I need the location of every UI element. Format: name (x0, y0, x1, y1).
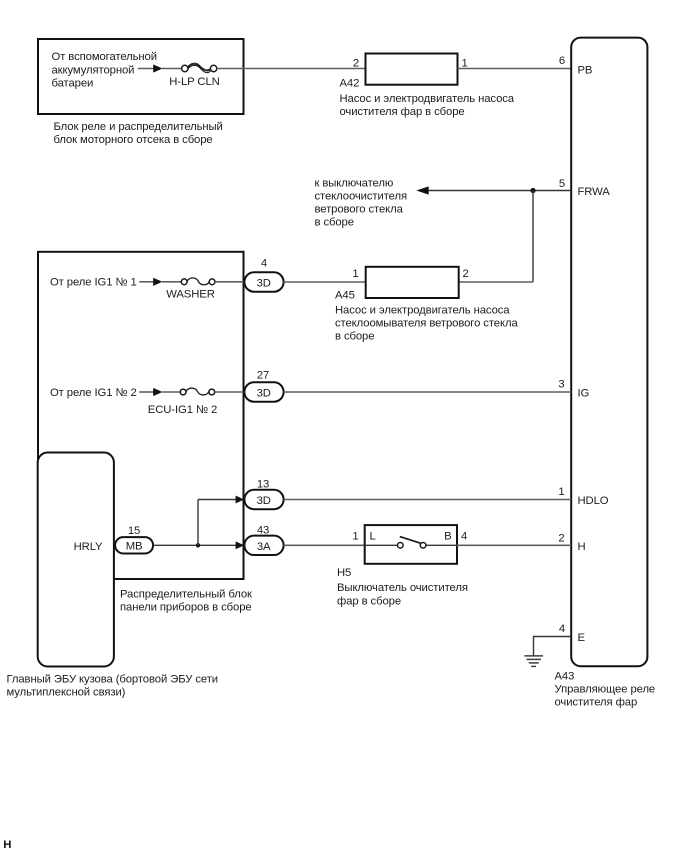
svg-text:1: 1 (352, 268, 358, 280)
label: relay block caption (54, 121, 223, 146)
wire (284, 544, 365, 546)
ground (524, 656, 543, 667)
svg-text:От реле IG1 № 1: От реле IG1 № 1 (50, 276, 137, 288)
arrow to wiper switch (416, 186, 428, 194)
svg-text:4: 4 (461, 531, 467, 543)
svg-text:B: B (444, 531, 451, 543)
wire (534, 637, 572, 656)
arrow into connector 3D (pin 13) (236, 496, 245, 504)
svg-text:A42: A42 (340, 77, 360, 89)
wire (532, 191, 534, 283)
svg-text:4: 4 (261, 258, 267, 270)
svg-text:5: 5 (559, 178, 565, 190)
svg-text:HDLO: HDLO (578, 495, 609, 507)
svg-text:E: E (578, 632, 586, 644)
instrument panel junction block box (38, 252, 244, 579)
wire (215, 281, 244, 283)
arrow into fuse H-LP CLN (153, 64, 162, 72)
wire (198, 499, 236, 501)
wire (138, 68, 154, 70)
label: to windshield wiper switch (315, 177, 407, 228)
svg-text:аккумуляторной: аккумуляторной (52, 65, 135, 77)
svg-text:очистителя фар в сборе: очистителя фар в сборе (340, 106, 465, 118)
arrow into connector 3A (pin 43) (236, 541, 245, 549)
main body ECU box (38, 453, 114, 667)
svg-text:H: H (578, 541, 586, 553)
svg-text:в сборе: в сборе (315, 217, 354, 229)
label: wiper switch caption (337, 582, 468, 608)
svg-text:Распределительный блок: Распределительный блок (120, 589, 252, 601)
fuse WASHER (181, 278, 215, 285)
label: A43 caption (555, 684, 656, 709)
svg-text:27: 27 (257, 369, 269, 381)
connector 3D (pin 13) (244, 490, 283, 509)
svg-text:ECU-IG1 № 2: ECU-IG1 № 2 (148, 404, 217, 416)
svg-text:H: H (3, 839, 11, 851)
svg-text:Насос и электродвигатель насос: Насос и электродвигатель насоса (335, 304, 510, 316)
svg-text:1: 1 (558, 486, 564, 498)
svg-text:мультиплексной связи): мультиплексной связи) (7, 686, 126, 698)
wire (162, 68, 182, 70)
wire (139, 281, 154, 283)
wire (217, 68, 366, 70)
svg-text:3A: 3A (257, 541, 271, 553)
svg-text:Управляющее реле: Управляющее реле (555, 684, 656, 696)
svg-text:3D: 3D (257, 495, 271, 507)
wire (162, 391, 180, 393)
svg-text:4: 4 (559, 623, 565, 635)
connector 3D (pin 27) (244, 382, 283, 401)
wire (457, 544, 571, 546)
svg-text:в сборе: в сборе (335, 331, 374, 343)
svg-text:1: 1 (352, 531, 358, 543)
wire (139, 391, 154, 393)
label: main body ECU caption (7, 673, 219, 698)
svg-text:15: 15 (128, 525, 140, 537)
wire (284, 499, 572, 501)
label: A42 caption (340, 93, 515, 118)
svg-text:PB: PB (578, 64, 593, 76)
wire (459, 281, 533, 283)
svg-text:H5: H5 (337, 567, 351, 579)
svg-text:6: 6 (559, 55, 565, 67)
svg-text:2: 2 (353, 58, 359, 70)
svg-text:WASHER: WASHER (166, 289, 215, 301)
wire FRWA branch (429, 190, 572, 192)
relay A43 box (571, 38, 647, 667)
pump and motor A45 box (366, 267, 459, 298)
svg-text:От реле IG1 № 2: От реле IG1 № 2 (50, 387, 137, 399)
svg-text:очистителя фар: очистителя фар (555, 697, 638, 709)
wire (215, 391, 245, 393)
svg-text:Насос и электродвигатель насос: Насос и электродвигатель насоса (340, 93, 515, 105)
wire (284, 391, 572, 393)
connector 3A (pin 43) (244, 536, 283, 555)
arrow into fuse WASHER (153, 278, 162, 286)
wire (197, 500, 199, 546)
svg-text:фар в сборе: фар в сборе (337, 595, 401, 607)
svg-text:к выключателю: к выключателю (315, 177, 394, 189)
wire (458, 68, 572, 70)
pump and motor A42 box (366, 54, 458, 85)
svg-text:панели приборов в сборе: панели приборов в сборе (120, 602, 252, 614)
svg-text:От вспомогательной: От вспомогательной (52, 51, 157, 63)
switch contacts H5 (365, 537, 457, 549)
wire (162, 281, 181, 283)
connector MB (115, 537, 153, 553)
svg-text:FRWA: FRWA (578, 186, 611, 198)
node FRWA junction (530, 188, 535, 193)
svg-text:A45: A45 (335, 289, 355, 301)
svg-text:ветрового стекла: ветрового стекла (315, 204, 404, 216)
svg-text:IG: IG (578, 388, 590, 400)
fusible link H-LP CLN (182, 63, 217, 73)
svg-text:2: 2 (558, 532, 564, 544)
svg-text:3D: 3D (257, 388, 271, 400)
svg-text:A43: A43 (555, 671, 575, 683)
svg-text:MB: MB (126, 541, 143, 553)
label: from auxiliary battery (52, 51, 157, 89)
svg-text:батареи: батареи (52, 77, 94, 89)
arrow into fuse ECU-IG1 (153, 388, 162, 396)
svg-text:HRLY: HRLY (74, 541, 103, 553)
wire (284, 281, 366, 283)
svg-text:Главный ЭБУ кузова (бортовой Э: Главный ЭБУ кузова (бортовой ЭБУ сети (7, 673, 219, 685)
engine room relay block box (38, 39, 244, 114)
wiper switch H5 box (365, 525, 457, 564)
node MB branch junction (196, 543, 200, 547)
svg-text:2: 2 (463, 268, 469, 280)
svg-text:блок моторного отсека в сборе: блок моторного отсека в сборе (54, 134, 213, 146)
fuse ECU-IG1 no.2 (180, 388, 215, 395)
wire (153, 544, 236, 546)
connector 3D (pin 4) (244, 272, 283, 291)
svg-text:L: L (370, 531, 376, 543)
label: A45 caption (335, 304, 518, 342)
svg-text:3D: 3D (257, 278, 271, 290)
svg-text:Выключатель очистителя: Выключатель очистителя (337, 582, 468, 594)
svg-text:Блок реле и распределительный: Блок реле и распределительный (54, 121, 223, 133)
svg-text:3: 3 (558, 379, 564, 391)
svg-text:стеклоомывателя ветрового стек: стеклоомывателя ветрового стекла (335, 317, 518, 329)
svg-text:H-LP CLN: H-LP CLN (169, 76, 219, 88)
label: instrument panel J/B caption (120, 589, 252, 614)
svg-text:стеклоочистителя: стеклоочистителя (315, 191, 407, 203)
